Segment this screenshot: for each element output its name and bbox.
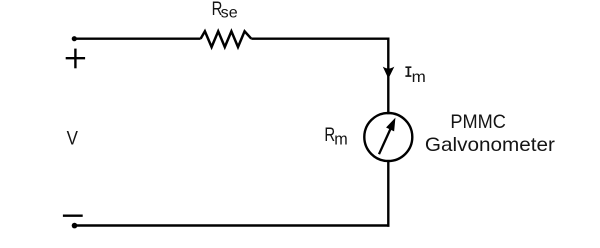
wire right vertical lower [387,160,389,227]
galvanometer needle arrowhead [387,119,395,131]
wire top right horizontal [251,38,389,40]
svg-text:PMMC: PMMC [450,111,506,133]
wire right vertical upper [387,38,389,115]
svg-text:m: m [334,129,348,148]
current arrow Im [384,68,393,78]
svg-text:V: V [67,128,78,150]
galvanometer circle U1 [364,113,412,161]
galvanometer needle [379,129,391,155]
label Im serif I [405,66,411,77]
wire top left horizontal [74,38,200,40]
wire bottom horizontal [75,224,390,226]
svg-text:Galvonometer: Galvonometer [425,134,556,156]
plus sign [66,57,85,59]
node dot top left terminal [72,36,77,41]
minus sign [63,214,83,216]
svg-text:se: se [221,5,238,22]
resistor R_se zigzag [201,31,252,47]
svg-text:m: m [412,69,426,86]
node dot bottom left terminal [72,223,78,229]
